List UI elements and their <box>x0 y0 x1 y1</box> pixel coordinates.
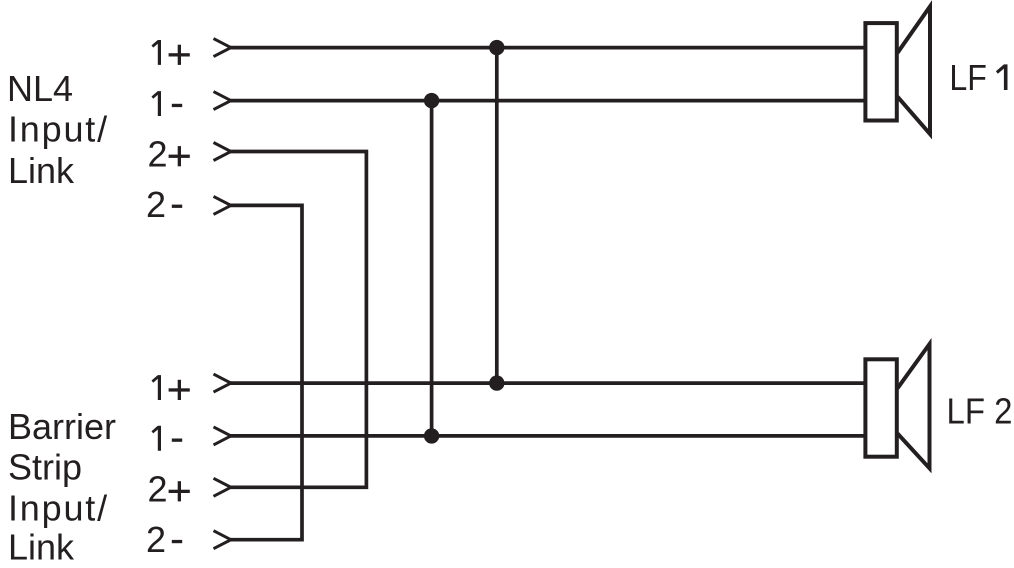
speaker LF1 driver and horn <box>865 7 930 135</box>
junction net 1+ at Barrier feed <box>489 375 504 390</box>
svg-text:LF: LF <box>949 57 987 98</box>
wire net 2+ : NL4 2+ link down to Barrier 2+ <box>229 152 366 488</box>
svg-text:LF 2: LF 2 <box>947 390 1013 431</box>
svg-text:2: 2 <box>146 519 166 560</box>
terminal NL4 pin 1- <box>152 91 231 116</box>
junction net 1+ at NL4 feed <box>489 40 504 55</box>
terminal Barrier pin 1+ <box>152 374 231 400</box>
terminal NL4 pin 2+ <box>148 133 231 174</box>
label: Barrier Strip Input/Link connector group <box>8 406 116 567</box>
svg-text:Strip: Strip <box>8 447 82 488</box>
label LF 1 <box>949 57 1007 98</box>
wire net 2- : NL4 2- link down to Barrier 2- <box>229 205 302 539</box>
junction net 1- at NL4 feed <box>424 93 439 108</box>
wire net 1- vertical link to Barrier 1- <box>430 101 434 436</box>
svg-text:Link: Link <box>8 150 75 191</box>
wire net 1+ vertical link to Barrier 1+ <box>495 48 499 384</box>
terminal Barrier pin 2+ <box>148 468 231 509</box>
label: NL4 Input/Link connector group <box>7 68 109 191</box>
wire net 1- : Barrier 1- to speaker LF2 minus <box>229 434 866 438</box>
terminal NL4 pin 1+ <box>152 39 231 65</box>
terminal Barrier pin 2- <box>146 519 231 560</box>
svg-text:2: 2 <box>148 133 168 174</box>
svg-text:Input/: Input/ <box>8 487 109 528</box>
svg-text:2: 2 <box>146 184 166 225</box>
svg-text:Input/: Input/ <box>8 108 109 149</box>
svg-text:NL4: NL4 <box>7 68 73 109</box>
junction net 1- at Barrier feed <box>424 428 439 443</box>
svg-text:Link: Link <box>8 527 75 568</box>
svg-text:Barrier: Barrier <box>8 406 116 447</box>
svg-text:2: 2 <box>148 468 168 509</box>
wire net 1- : NL4 1- to speaker LF1 minus <box>229 99 866 103</box>
terminal NL4 pin 2- <box>146 184 231 225</box>
wire net 1+ : NL4 1+ to speaker LF1 plus <box>229 46 866 50</box>
label LF 2 <box>947 390 1013 431</box>
wire net 1+ : Barrier 1+ to speaker LF2 plus <box>229 381 866 385</box>
speaker LF2 driver and horn <box>865 344 929 468</box>
terminal Barrier pin 1- <box>152 426 231 451</box>
